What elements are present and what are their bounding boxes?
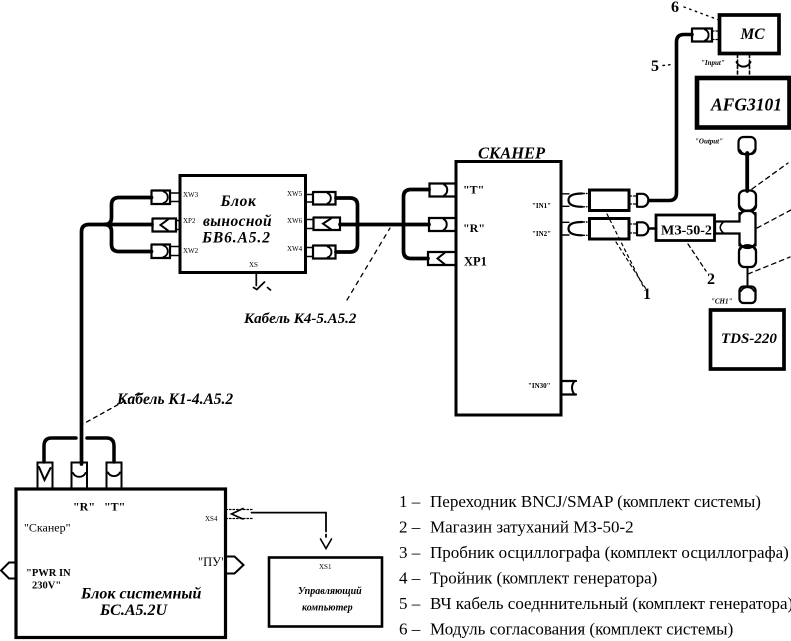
svg-text:ХР1: ХР1: [464, 255, 487, 269]
svg-text:5: 5: [651, 58, 659, 75]
svg-text:"CH1": "CH1": [711, 298, 733, 306]
svg-text:AFG3101: AFG3101: [710, 95, 782, 115]
svg-text:"Input": "Input": [701, 59, 725, 67]
svg-text:TDS-220: TDS-220: [721, 331, 777, 347]
svg-text:Переходник BNCJ/SMAP (комплект: Переходник BNCJ/SMAP (комплект системы): [430, 492, 761, 511]
svg-text:МЗ-50-2: МЗ-50-2: [661, 224, 712, 239]
svg-text:БВ6.А5.2: БВ6.А5.2: [201, 230, 271, 247]
svg-text:Блок системный: Блок системный: [80, 586, 201, 603]
svg-text:4 –: 4 –: [399, 569, 421, 588]
svg-text:3 –: 3 –: [399, 543, 421, 562]
svg-text:5 –: 5 –: [399, 594, 421, 613]
svg-text:Блок: Блок: [220, 193, 257, 210]
svg-text:XW4: XW4: [287, 245, 303, 253]
svg-text:XS: XS: [249, 261, 258, 269]
svg-text:XS4: XS4: [205, 515, 218, 523]
svg-text:"ПУ": "ПУ": [198, 555, 226, 569]
svg-text:Управляющий: Управляющий: [298, 586, 362, 597]
svg-text:ВЧ кабель соедннительный (комп: ВЧ кабель соедннительный (комплект генер…: [430, 594, 791, 613]
svg-text:2: 2: [707, 271, 715, 288]
svg-text:"IN2": "IN2": [532, 230, 551, 238]
svg-text:"Сканер": "Сканер": [24, 521, 71, 535]
svg-text:компьютер: компьютер: [302, 603, 353, 614]
svg-text:XW6: XW6: [287, 217, 303, 225]
svg-text:"IN30": "IN30": [528, 382, 551, 390]
svg-text:БС.А5.2U: БС.А5.2U: [99, 602, 169, 619]
svg-text:выносной: выносной: [203, 213, 272, 230]
svg-text:МС: МС: [740, 26, 766, 43]
svg-text:Кабель К1-4.А5.2: Кабель К1-4.А5.2: [116, 391, 233, 408]
svg-text:230V": 230V": [32, 581, 61, 592]
svg-text:Магазин затуханий МЗ-50-2: Магазин затуханий МЗ-50-2: [430, 518, 634, 537]
svg-text:СКАНЕР: СКАНЕР: [478, 144, 546, 163]
svg-text:"R": "R": [463, 221, 485, 235]
svg-text:"PWR IN: "PWR IN: [26, 568, 71, 579]
svg-text:Тройник (комплект генератора): Тройник (комплект генератора): [430, 569, 657, 588]
svg-text:2 –: 2 –: [399, 518, 421, 537]
svg-text:6: 6: [671, 0, 679, 16]
svg-text:"IN1": "IN1": [532, 202, 551, 210]
svg-text:XW5: XW5: [287, 190, 303, 198]
svg-text:Кабель К4-5.А5.2: Кабель К4-5.А5.2: [243, 311, 357, 327]
svg-text:Пробник осциллографа (комплект: Пробник осциллографа (комплект осциллогр…: [430, 543, 789, 562]
svg-text:XW3: XW3: [183, 191, 199, 199]
svg-text:1: 1: [643, 286, 651, 303]
svg-text:"Т": "Т": [463, 183, 484, 197]
svg-text:XP2: XP2: [183, 217, 196, 225]
svg-text:XS1: XS1: [319, 563, 332, 571]
svg-text:1 –: 1 –: [399, 492, 421, 511]
svg-text:6 –: 6 –: [399, 620, 421, 639]
svg-text:XW2: XW2: [183, 247, 199, 255]
svg-text:Модуль согласования (комплект: Модуль согласования (комплект системы): [430, 620, 733, 639]
svg-text:"Output": "Output": [695, 138, 723, 146]
svg-text:"Т": "Т": [104, 500, 125, 514]
svg-text:"R": "R": [73, 500, 95, 514]
